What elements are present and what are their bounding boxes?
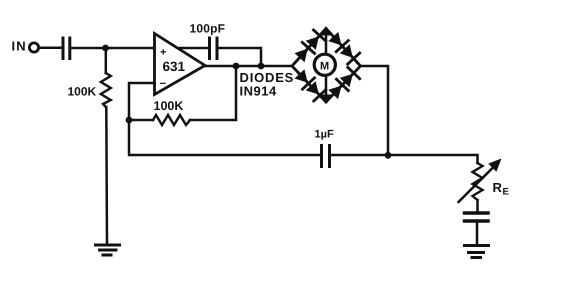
svg-text:–: –	[160, 76, 167, 90]
diode bridge frame	[292, 29, 361, 103]
node junction E	[385, 152, 392, 159]
capacitor C2 100pF	[210, 38, 218, 59]
op-amp U1 631	[155, 34, 206, 95]
resistor R2 100K horizontal	[153, 115, 190, 125]
capacitor C4	[465, 213, 489, 221]
node bottom vertex blob	[320, 95, 332, 104]
wire C3 to RE branch	[331, 155, 478, 163]
svg-text:IN914: IN914	[240, 83, 277, 98]
svg-text:E: E	[503, 187, 509, 198]
svg-text:IN: IN	[12, 39, 27, 54]
svg-text:100pF: 100pF	[190, 21, 226, 35]
resistor R1 100K vertical	[101, 73, 111, 107]
wire junction A down to R1	[105, 48, 108, 73]
wire C2 to output node	[218, 48, 261, 66]
wire junction B down and bottom rail to C3	[129, 120, 320, 155]
node junction B	[126, 117, 133, 124]
wire junction B to R2	[129, 119, 153, 122]
diode D2 (left-top edge upper)	[306, 30, 326, 50]
arrow of RE	[459, 159, 502, 203]
node top vertex blob	[320, 27, 332, 36]
diode D7 (bottom-right edge lower)	[328, 79, 348, 99]
ground right	[465, 246, 489, 258]
capacitor C1	[63, 38, 70, 59]
wire - input to left	[129, 83, 155, 120]
svg-text:100K: 100K	[154, 99, 184, 113]
wire hypotenuse to C2	[180, 47, 208, 50]
ground left	[96, 245, 120, 255]
diode D8 (bottom-right edge upper)	[340, 67, 360, 87]
diode D6 (left-bottom edge lower)	[306, 81, 326, 101]
wire IN to C1	[39, 47, 62, 50]
wire R2 to output riser	[190, 66, 236, 120]
svg-text:R: R	[493, 180, 503, 195]
diode D5 (left-bottom edge upper)	[295, 69, 315, 89]
diode D3 (top-right edge upper)	[328, 32, 348, 52]
wire bridge vertical shaft	[325, 29, 328, 55]
wire C1 to op-amp + input	[71, 47, 155, 50]
wire R1 to ground	[105, 107, 108, 244]
svg-text:1µF: 1µF	[315, 129, 334, 141]
node junction C on output	[233, 63, 240, 70]
svg-text:+: +	[160, 47, 166, 59]
svg-text:631: 631	[163, 59, 186, 74]
svg-text:100K: 100K	[68, 85, 97, 99]
node junction A	[102, 45, 109, 52]
resistor RE variable	[473, 163, 483, 200]
wire bridge right to riser	[361, 66, 388, 155]
wire op-amp output to bridge	[204, 65, 292, 68]
diode D1 (left-top edge lower)	[295, 42, 315, 62]
wire RE to C4	[476, 200, 479, 211]
motor M	[314, 54, 335, 75]
svg-text:M: M	[320, 61, 329, 73]
capacitor C3 1uF	[322, 146, 330, 167]
node IN terminal	[29, 43, 38, 52]
node junction D on output	[258, 63, 265, 70]
wire C4 to ground	[476, 223, 479, 245]
diode D4 (top-right edge lower)	[340, 44, 360, 64]
